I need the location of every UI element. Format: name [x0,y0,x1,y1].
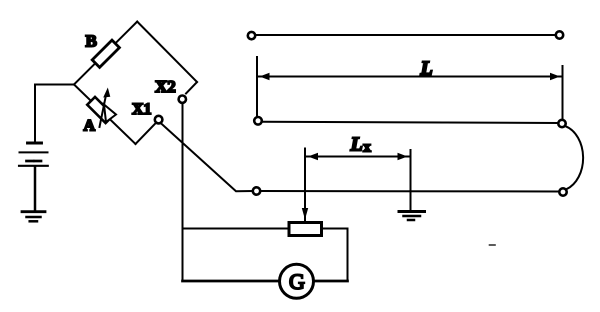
dimension Lx right arrowhead [398,153,408,160]
wire bridge side left-bottom [74,85,136,145]
terminal X1 [155,116,163,124]
svg-text:X: X [363,143,371,155]
wire jockey left [183,228,290,230]
dimension L right tick [562,66,564,119]
wire X1 diagonal to lower wire [161,124,252,192]
label B [86,32,97,51]
label A [84,118,96,135]
label Lx [350,134,372,156]
svg-text:X2: X2 [155,77,176,96]
wire battery to bridge [35,84,74,86]
wire right vertex to X2 [186,82,197,94]
dimension L right arrowhead [550,73,560,80]
galvanometer G [280,264,314,298]
resistor B [92,40,119,67]
wire bottom vertex to X1 [136,123,156,144]
label X2 [155,77,176,96]
svg-text:X1: X1 [132,101,152,118]
ground tap [399,212,425,221]
wire bottom left to G [183,280,281,283]
terminal top-right circle [556,31,563,38]
terminal bottom-left circle [254,117,262,125]
wire G to right vertical [316,280,348,283]
svg-text:L: L [350,134,363,156]
wire right vertical to G [347,229,349,282]
terminal top-left circle [248,32,255,39]
svg-text:G: G [289,269,305,294]
ground battery [22,212,45,222]
dimension Lx left arrowhead [308,153,318,160]
slide wire bottom [262,122,558,123]
wire battery top vertical [34,85,36,143]
battery E plate 4 long [19,165,48,167]
terminal bottom-right circle [558,120,565,127]
svg-text:B: B [86,32,97,51]
node connector circle left of slide return wire [253,187,260,194]
terminal arc-bottom circle [559,188,566,195]
dimension L line [258,76,562,78]
terminal X2 [179,96,186,103]
dimension L left arrowhead [260,73,270,80]
dimension Lx right tick / ground tap wire [410,150,412,210]
battery E plate 1 short [28,142,42,145]
rheostat A [87,97,113,123]
wire return lower horizontal [261,190,560,193]
svg-text:L: L [420,58,433,80]
battery E plate 3 short [27,160,42,163]
wire jockey right [322,228,348,230]
dimension L left tick [256,57,258,117]
label X1 [132,101,152,118]
slide wire top [255,34,555,36]
wire X2 vertical [182,103,184,281]
wire battery bottom vertical [34,167,37,211]
jockey box [289,223,322,236]
stray mark [490,244,496,246]
svg-text:A: A [84,118,96,135]
jockey contact arrowhead [302,208,308,220]
battery E plate 2 long [20,151,48,153]
wire bridge side left-top [74,22,137,85]
label L [420,58,433,80]
dimension Lx line [306,156,410,158]
label G [289,269,305,294]
rheostat A wiper triangle [104,105,116,123]
wire right end arc [565,126,583,189]
rheostat A arrow [100,88,111,128]
dimension Lx left tick [304,149,306,223]
wire bridge side top-right [137,22,197,82]
